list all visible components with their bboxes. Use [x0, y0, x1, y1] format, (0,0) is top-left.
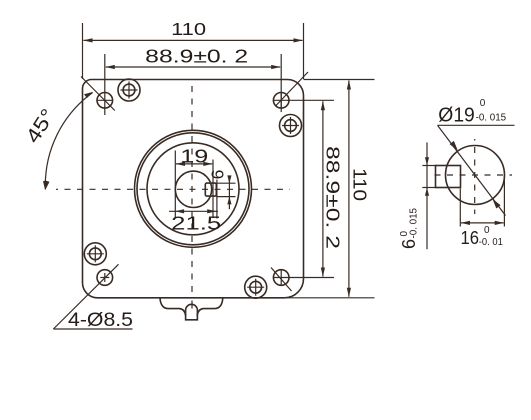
- dim 6 flat extension top: [422, 165, 436, 167]
- bolt hole bottom-left: [97, 270, 113, 286]
- dia 19 leader underline: [438, 124, 515, 126]
- flange body outline: [83, 80, 304, 298]
- keyway block: [205, 183, 216, 196]
- dim 6 keyway line: [228, 177, 230, 210]
- dim 6 flat text: [399, 208, 420, 249]
- dim 110 right extension top: [304, 79, 375, 81]
- dim 6 keyway extension bottom: [216, 196, 235, 198]
- dim 88.9 right extension bottom: [274, 277, 335, 279]
- svg-text:88.9±0. 2: 88.9±0. 2: [323, 146, 343, 249]
- svg-text:6: 6: [208, 170, 228, 180]
- dim 88.9 right extension top: [274, 99, 335, 101]
- dia 19 leader diagonal: [438, 125, 506, 215]
- dim 6 keyway extension top: [216, 182, 235, 184]
- svg-text:0: 0: [480, 98, 486, 109]
- screw boss top-right: [280, 115, 302, 137]
- pilot boss inner circle: [137, 133, 249, 245]
- cable exit left wing: [160, 298, 186, 315]
- svg-text:16: 16: [461, 228, 480, 248]
- shaft flat block: [436, 166, 461, 188]
- dim 19 extension right: [212, 160, 214, 219]
- dim 21.5 line: [169, 210, 218, 212]
- horizontal centerline: [56, 188, 290, 190]
- screw boss bottom-left: [84, 243, 106, 265]
- leader underline: [53, 328, 132, 330]
- slash through top-right hole: [276, 72, 309, 106]
- svg-text:88.9±0. 2: 88.9±0. 2: [145, 46, 248, 66]
- leader line 4-holes: [53, 264, 118, 329]
- slash through bottom-right hole: [271, 268, 292, 292]
- dim 88.9 top extension left: [104, 54, 106, 115]
- bolt hole top-left: [97, 93, 114, 109]
- svg-text:110: 110: [350, 168, 370, 201]
- svg-text:21.5: 21.5: [171, 214, 221, 234]
- dim 110 top extension left: [82, 23, 84, 79]
- cable exit tab: [186, 304, 198, 319]
- dim 110 top line: [84, 39, 303, 41]
- shaft section circle: [446, 146, 505, 205]
- cable exit right wing: [197, 298, 223, 315]
- bolt hole bottom-right: [273, 269, 289, 286]
- slash through top-left hole: [81, 77, 115, 111]
- dim 16 line: [461, 222, 504, 224]
- side horizontal centerline: [433, 174, 512, 176]
- svg-text:Ø19: Ø19: [438, 105, 475, 127]
- svg-text:19: 19: [180, 147, 208, 167]
- screw boss top-left: [118, 79, 140, 101]
- svg-text:-0. 015: -0. 015: [409, 208, 420, 239]
- svg-text:-0. 01: -0. 01: [479, 237, 503, 248]
- dim 21.5 extension right: [216, 180, 218, 219]
- dim 6 flat extension bottom: [422, 187, 436, 189]
- shaft circle: [175, 171, 211, 207]
- svg-text:4-Ø8.5: 4-Ø8.5: [68, 310, 133, 331]
- dim 19 extension left: [174, 151, 176, 219]
- svg-text:6: 6: [399, 239, 419, 249]
- side vertical centerline: [474, 139, 476, 214]
- dim 16 extension right: [503, 176, 505, 227]
- screw boss bottom-right: [245, 276, 267, 298]
- dim 19 line: [176, 163, 212, 165]
- bolt hole top-right: [273, 92, 289, 109]
- svg-text:110: 110: [171, 19, 206, 39]
- dim 110 right extension bottom: [285, 297, 375, 299]
- dim 88.9 top line: [106, 66, 280, 68]
- register circle: [147, 143, 239, 235]
- svg-text:-0. 015: -0. 015: [476, 113, 507, 124]
- dim 88.9 top extension right: [280, 54, 282, 112]
- dim 110 right line: [348, 81, 350, 297]
- dim 16 extension left: [459, 189, 461, 227]
- 45 degree arc: [45, 93, 92, 189]
- pilot boss outer circle: [135, 130, 252, 247]
- svg-text:0: 0: [484, 225, 490, 236]
- dim 88.9 right line: [322, 101, 324, 276]
- vertical centerline: [191, 84, 193, 297]
- dim 110 top extension right: [303, 23, 305, 79]
- dim 6 flat line: [426, 142, 428, 249]
